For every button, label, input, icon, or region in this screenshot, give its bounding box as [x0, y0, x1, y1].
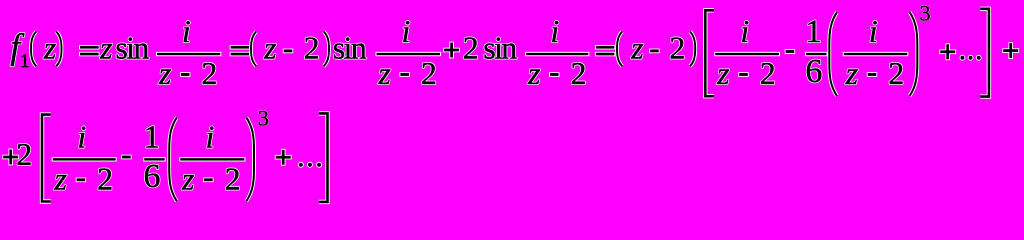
plus sign before dots line 1: [939, 43, 956, 60]
svg-text:i: i: [869, 13, 878, 49]
svg-text:i: i: [182, 13, 191, 49]
plus sign before dots line 2: [275, 149, 292, 166]
coefficient 2: [463, 30, 479, 66]
exponent 3 line 1: [919, 0, 930, 25]
series minus line 1: [785, 49, 795, 54]
numerator i of 6: [77, 118, 86, 154]
coefficient 2 line 2: [16, 136, 32, 172]
right paren of f1(z): [56, 32, 61, 67]
right paren of (z-2) term 2: [690, 32, 695, 67]
svg-text:3: 3: [919, 0, 930, 25]
svg-text:z: z: [158, 55, 172, 91]
z of (z-2) term 1: [263, 30, 277, 66]
numerator 1 of 1/6 line 2: [144, 119, 161, 155]
svg-text:i: i: [401, 13, 410, 49]
svg-text:z: z: [527, 55, 541, 91]
ellipsis line 1: [960, 55, 982, 61]
svg-text:i: i: [550, 13, 559, 49]
svg-text:2: 2: [888, 55, 904, 91]
denominator z of 1: [158, 55, 172, 91]
denominator 2 of 3: [570, 55, 586, 91]
denominator 2 of 2: [421, 55, 437, 91]
denominator minus of 3: [549, 72, 559, 77]
fraction bar 6: [52, 157, 117, 161]
svg-text:2: 2: [570, 55, 586, 91]
denominator minus of 2: [400, 72, 410, 77]
numerator i of 2: [401, 13, 410, 49]
exponent 3 line 2: [258, 106, 269, 131]
svg-text:1: 1: [144, 119, 161, 155]
denominator z of 6: [54, 161, 68, 197]
svg-text:i: i: [206, 118, 215, 154]
denominator z of 7: [181, 161, 195, 197]
svg-text:1: 1: [805, 14, 822, 50]
svg-text:2: 2: [201, 55, 217, 91]
plus sign 1: [443, 42, 460, 59]
numerator i of 4: [740, 13, 749, 49]
sin function 3: [483, 30, 517, 66]
svg-text:sin: sin: [115, 30, 149, 66]
sin function 2: [333, 30, 367, 66]
denominator 2 of 7: [225, 161, 241, 197]
right paren of (z-2) term 1: [324, 32, 329, 67]
denominator 2 of 4: [760, 55, 776, 91]
numerator 1 of 1/6 line 1: [805, 14, 822, 50]
denominator 6 of 1/6 line 2: [144, 158, 161, 195]
equals sign 1: [79, 45, 99, 56]
fraction bar 2: [376, 52, 442, 56]
svg-text:z: z: [630, 30, 644, 66]
svg-text:z: z: [99, 30, 113, 66]
svg-text:2: 2: [669, 30, 685, 66]
numerator i of 3: [550, 13, 559, 49]
fraction bar 7: [179, 157, 245, 161]
svg-text:2: 2: [97, 161, 113, 197]
denominator z of 3: [527, 55, 541, 91]
svg-text:2: 2: [16, 136, 32, 172]
equals sign 2: [230, 45, 250, 56]
sin function 1: [115, 30, 149, 66]
right square bracket line 2: [319, 113, 328, 201]
denominator 2 of 5: [888, 55, 904, 91]
fraction bar 4: [714, 52, 780, 56]
denominator minus of 7: [203, 177, 213, 182]
svg-text:3: 3: [258, 106, 269, 131]
svg-text:z: z: [181, 161, 195, 197]
fraction bar of 1/6 line 1: [805, 52, 828, 56]
left paren of (z-2) term 1: [251, 32, 256, 67]
big right paren line 1: [910, 12, 918, 96]
denominator z of 4: [716, 55, 730, 91]
trailing plus line 1: [1002, 42, 1019, 59]
svg-text:sin: sin: [483, 30, 517, 66]
svg-text:2: 2: [463, 30, 479, 66]
svg-text:2: 2: [304, 30, 320, 66]
denominator minus of 4: [738, 72, 748, 77]
svg-text:sin: sin: [333, 30, 367, 66]
leading plus line 2: [2, 149, 19, 166]
denominator minus of 5: [867, 72, 877, 77]
denominator minus of 6: [76, 177, 86, 182]
numerator i of 7: [206, 118, 215, 154]
svg-text:2: 2: [421, 55, 437, 91]
svg-text:i: i: [740, 13, 749, 49]
denominator 6 of 1/6 line 1: [805, 53, 822, 90]
denominator 2 of 1: [201, 55, 217, 91]
denominator z of 2: [377, 55, 391, 91]
big left paren line 2: [169, 118, 177, 202]
series minus line 2: [121, 155, 131, 160]
svg-text:z: z: [377, 55, 391, 91]
svg-text:2: 2: [225, 161, 241, 197]
ellipsis line 2: [298, 162, 322, 168]
equals sign 3: [595, 45, 615, 56]
argument z: [43, 30, 57, 66]
svg-text:1: 1: [20, 52, 29, 72]
left paren of f1(z): [31, 32, 36, 67]
denominator 2 of 6: [97, 161, 113, 197]
denominator z of 5: [845, 55, 859, 91]
big right paren line 2: [246, 118, 254, 202]
svg-text:2: 2: [760, 55, 776, 91]
left paren of (z-2) term 2: [617, 32, 622, 67]
2 of (z-2) term 2: [669, 30, 685, 66]
minus of (z-2) term 1: [283, 49, 293, 54]
svg-text:6: 6: [144, 158, 161, 195]
svg-text:6: 6: [805, 53, 822, 90]
svg-text:z: z: [716, 55, 730, 91]
fraction bar of 1/6 line 2: [143, 157, 166, 161]
svg-text:z: z: [43, 30, 57, 66]
svg-text:z: z: [54, 161, 68, 197]
minus of (z-2) term 2: [649, 49, 659, 54]
svg-text:z: z: [263, 30, 277, 66]
svg-text:z: z: [845, 55, 859, 91]
2 of (z-2) term 1: [304, 30, 320, 66]
svg-text:i: i: [77, 118, 86, 154]
big left paren line 1: [829, 12, 837, 96]
fraction bar 5: [843, 52, 909, 56]
z of (z-2) term 2: [630, 30, 644, 66]
coefficient z: [99, 30, 113, 66]
numerator i of 1: [182, 13, 191, 49]
denominator minus of 1: [180, 72, 190, 77]
function symbol f: [10, 27, 25, 67]
fraction bar 3: [525, 52, 589, 56]
numerator i of 5: [869, 13, 878, 49]
fraction bar 1: [156, 52, 221, 56]
right square bracket line 1: [980, 9, 989, 97]
left square bracket line 1: [705, 10, 714, 96]
left square bracket line 2: [42, 115, 51, 202]
